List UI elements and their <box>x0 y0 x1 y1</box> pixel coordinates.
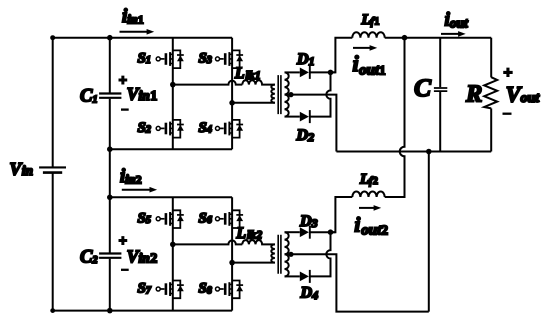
transformer T2 secondary winding <box>285 232 289 276</box>
node: inner rail top junction <box>107 35 113 41</box>
wire: R branch upper <box>490 38 492 78</box>
svg-text:iout2: iout2 <box>354 213 388 239</box>
battery Vin top plate <box>39 166 66 168</box>
svg-text:Lf2: Lf2 <box>359 171 378 187</box>
svg-text:Vin2: Vin2 <box>127 247 157 267</box>
svg-text:Vin1: Vin1 <box>127 84 157 104</box>
node: D3/D4 cathode junction <box>328 229 334 235</box>
wire: tap to Llk1 with hop over right leg <box>173 81 243 85</box>
transistor S3 <box>216 50 244 68</box>
transformer T2 primary winding <box>271 244 275 262</box>
wire: output cap C branch lower <box>439 92 441 152</box>
svg-text:Llk2: Llk2 <box>236 225 263 242</box>
transformer T1 secondary winding <box>285 72 289 116</box>
transistor S7 <box>156 281 184 299</box>
transistor S2 <box>156 120 184 138</box>
capacitor C1 plates <box>99 94 121 98</box>
transistor S8 <box>216 281 244 299</box>
capacitor C2 plates <box>99 254 121 258</box>
svg-text:D4: D4 <box>300 285 319 302</box>
label minus C2 <box>121 269 129 271</box>
svg-text:S2: S2 <box>138 120 151 136</box>
node: T2 center tap <box>288 252 293 257</box>
wire: T1 center tap return <box>285 95 337 152</box>
inductor Lf2 <box>352 192 384 198</box>
transformer T1 core <box>278 75 281 114</box>
svg-text:+: + <box>503 64 512 81</box>
wire: rectifier2 output riser to Lf2 <box>331 197 353 232</box>
node: inner rail at bridge2 bottom <box>107 308 113 314</box>
node: T1 center tap <box>288 92 293 97</box>
wire: right leg tap to T2 primary bottom <box>232 262 275 264</box>
wire: inner rail bottom segment <box>109 259 111 311</box>
wire: secondary bottom to D4 <box>285 275 300 277</box>
svg-text:S4: S4 <box>199 120 212 136</box>
wire: inner rail segment above C1 <box>109 38 111 93</box>
svg-text:+: + <box>119 73 127 89</box>
wire: Lf1 to output top rail <box>385 37 492 39</box>
wire: D2 cathode riser with hop over center tap <box>310 72 331 116</box>
wire: bridge1 right leg <box>231 38 233 150</box>
inductor Llk2 <box>242 240 275 244</box>
transistor S6 <box>216 210 244 228</box>
wire: D1 to node <box>310 71 336 73</box>
wire: Lf2 to output riser with hop over bottom rail <box>385 38 405 197</box>
node: bottom-left corner <box>50 308 55 313</box>
svg-text:S6: S6 <box>199 210 212 226</box>
node: bridge1 right leg tap <box>229 100 235 106</box>
wire: secondary top to D1 <box>285 71 300 73</box>
battery Vin bottom plate <box>43 171 62 174</box>
svg-text:Vin: Vin <box>10 159 33 179</box>
wire: bridge1 bottom rail <box>110 148 232 150</box>
wire: R branch lower <box>490 108 492 151</box>
svg-text:Lf1: Lf1 <box>361 12 380 28</box>
node: inner rail at bridge1 bottom <box>107 146 113 152</box>
wire: bridge2 left leg <box>172 197 174 310</box>
node: D1/D2 cathode junction <box>328 70 334 76</box>
wire: secondary top to D3 <box>285 231 300 233</box>
label minus Vout <box>503 113 512 115</box>
wire: D4 cathode riser with hop over center tap <box>310 232 331 276</box>
svg-text:S5: S5 <box>138 210 151 226</box>
transformer T1 primary winding <box>271 85 275 103</box>
resistor R zigzag <box>484 77 497 108</box>
node: bridge2 left leg tap <box>170 242 176 248</box>
svg-text:C1: C1 <box>80 87 98 107</box>
inductor Llk1 <box>242 80 275 84</box>
wire: outer left rail upper <box>52 38 54 168</box>
inductor Lf1 <box>352 32 384 38</box>
svg-text:iout: iout <box>445 9 470 30</box>
transistor S5 <box>156 210 184 228</box>
node: inner rail at bridge2 top <box>107 195 113 201</box>
wire: inner rail middle segment <box>109 99 111 253</box>
transformer T2 core <box>278 235 281 274</box>
svg-text:C: C <box>414 73 432 102</box>
arrow i_in2 <box>122 189 150 191</box>
arrow i_out <box>441 33 459 35</box>
diode D3 <box>300 226 310 239</box>
transistor S1 <box>156 50 184 68</box>
svg-text:S1: S1 <box>138 50 151 66</box>
node: bridge2 right leg tap <box>229 260 235 266</box>
wire: T2 center tap return <box>285 254 429 311</box>
svg-text:S8: S8 <box>199 281 212 297</box>
svg-text:+: + <box>119 234 127 250</box>
label minus C1 <box>121 108 129 110</box>
svg-text:S7: S7 <box>138 281 152 297</box>
svg-text:D2: D2 <box>296 127 315 144</box>
diode D1 <box>300 66 310 79</box>
arrow i_out1 <box>353 47 370 49</box>
svg-text:C2: C2 <box>80 247 98 267</box>
node: output bottom rail / phase2 return junction <box>426 149 432 155</box>
wire: bridge2 bottom rail <box>53 310 232 312</box>
wire: bridge2 top rail <box>110 196 232 198</box>
wire: bridge2 right leg <box>231 197 233 310</box>
wire: output bottom rail <box>336 151 491 153</box>
svg-text:D3: D3 <box>299 213 318 230</box>
wire: tap to Llk2 with hop over right leg <box>173 240 243 244</box>
svg-text:iin2: iin2 <box>120 167 142 187</box>
capacitor C plates <box>434 88 447 91</box>
wire: bridge1 left leg <box>172 38 174 150</box>
svg-text:S3: S3 <box>199 50 212 66</box>
diode D4 <box>300 270 310 283</box>
wire: phase2 return riser <box>428 152 430 312</box>
transistor S4 <box>216 120 244 138</box>
node: bridge1 left leg tap <box>170 82 176 88</box>
node: top-left corner junction <box>50 35 55 40</box>
arrow i_in1 <box>120 31 148 33</box>
wire: right leg tap to primary bottom <box>232 102 275 104</box>
svg-text:D1: D1 <box>296 51 315 68</box>
wire: secondary bottom to D2 <box>285 116 300 118</box>
wire: output cap C branch upper <box>439 38 441 87</box>
diode D2 <box>300 110 310 123</box>
svg-text:R: R <box>465 81 482 108</box>
svg-text:Llk1: Llk1 <box>234 65 261 82</box>
wire: D3 to node <box>310 231 336 233</box>
wire: input top rail <box>53 37 232 39</box>
svg-text:iin1: iin1 <box>122 6 144 27</box>
svg-text:iout1: iout1 <box>353 51 386 78</box>
node: Lf1/Lf2 output junction <box>402 35 408 41</box>
svg-text:Vout: Vout <box>506 82 540 107</box>
wire: outer left rail lower <box>52 173 54 311</box>
arrow i_out2 <box>359 207 374 209</box>
wire: rectifier1 output riser to Lf1 <box>331 38 353 73</box>
